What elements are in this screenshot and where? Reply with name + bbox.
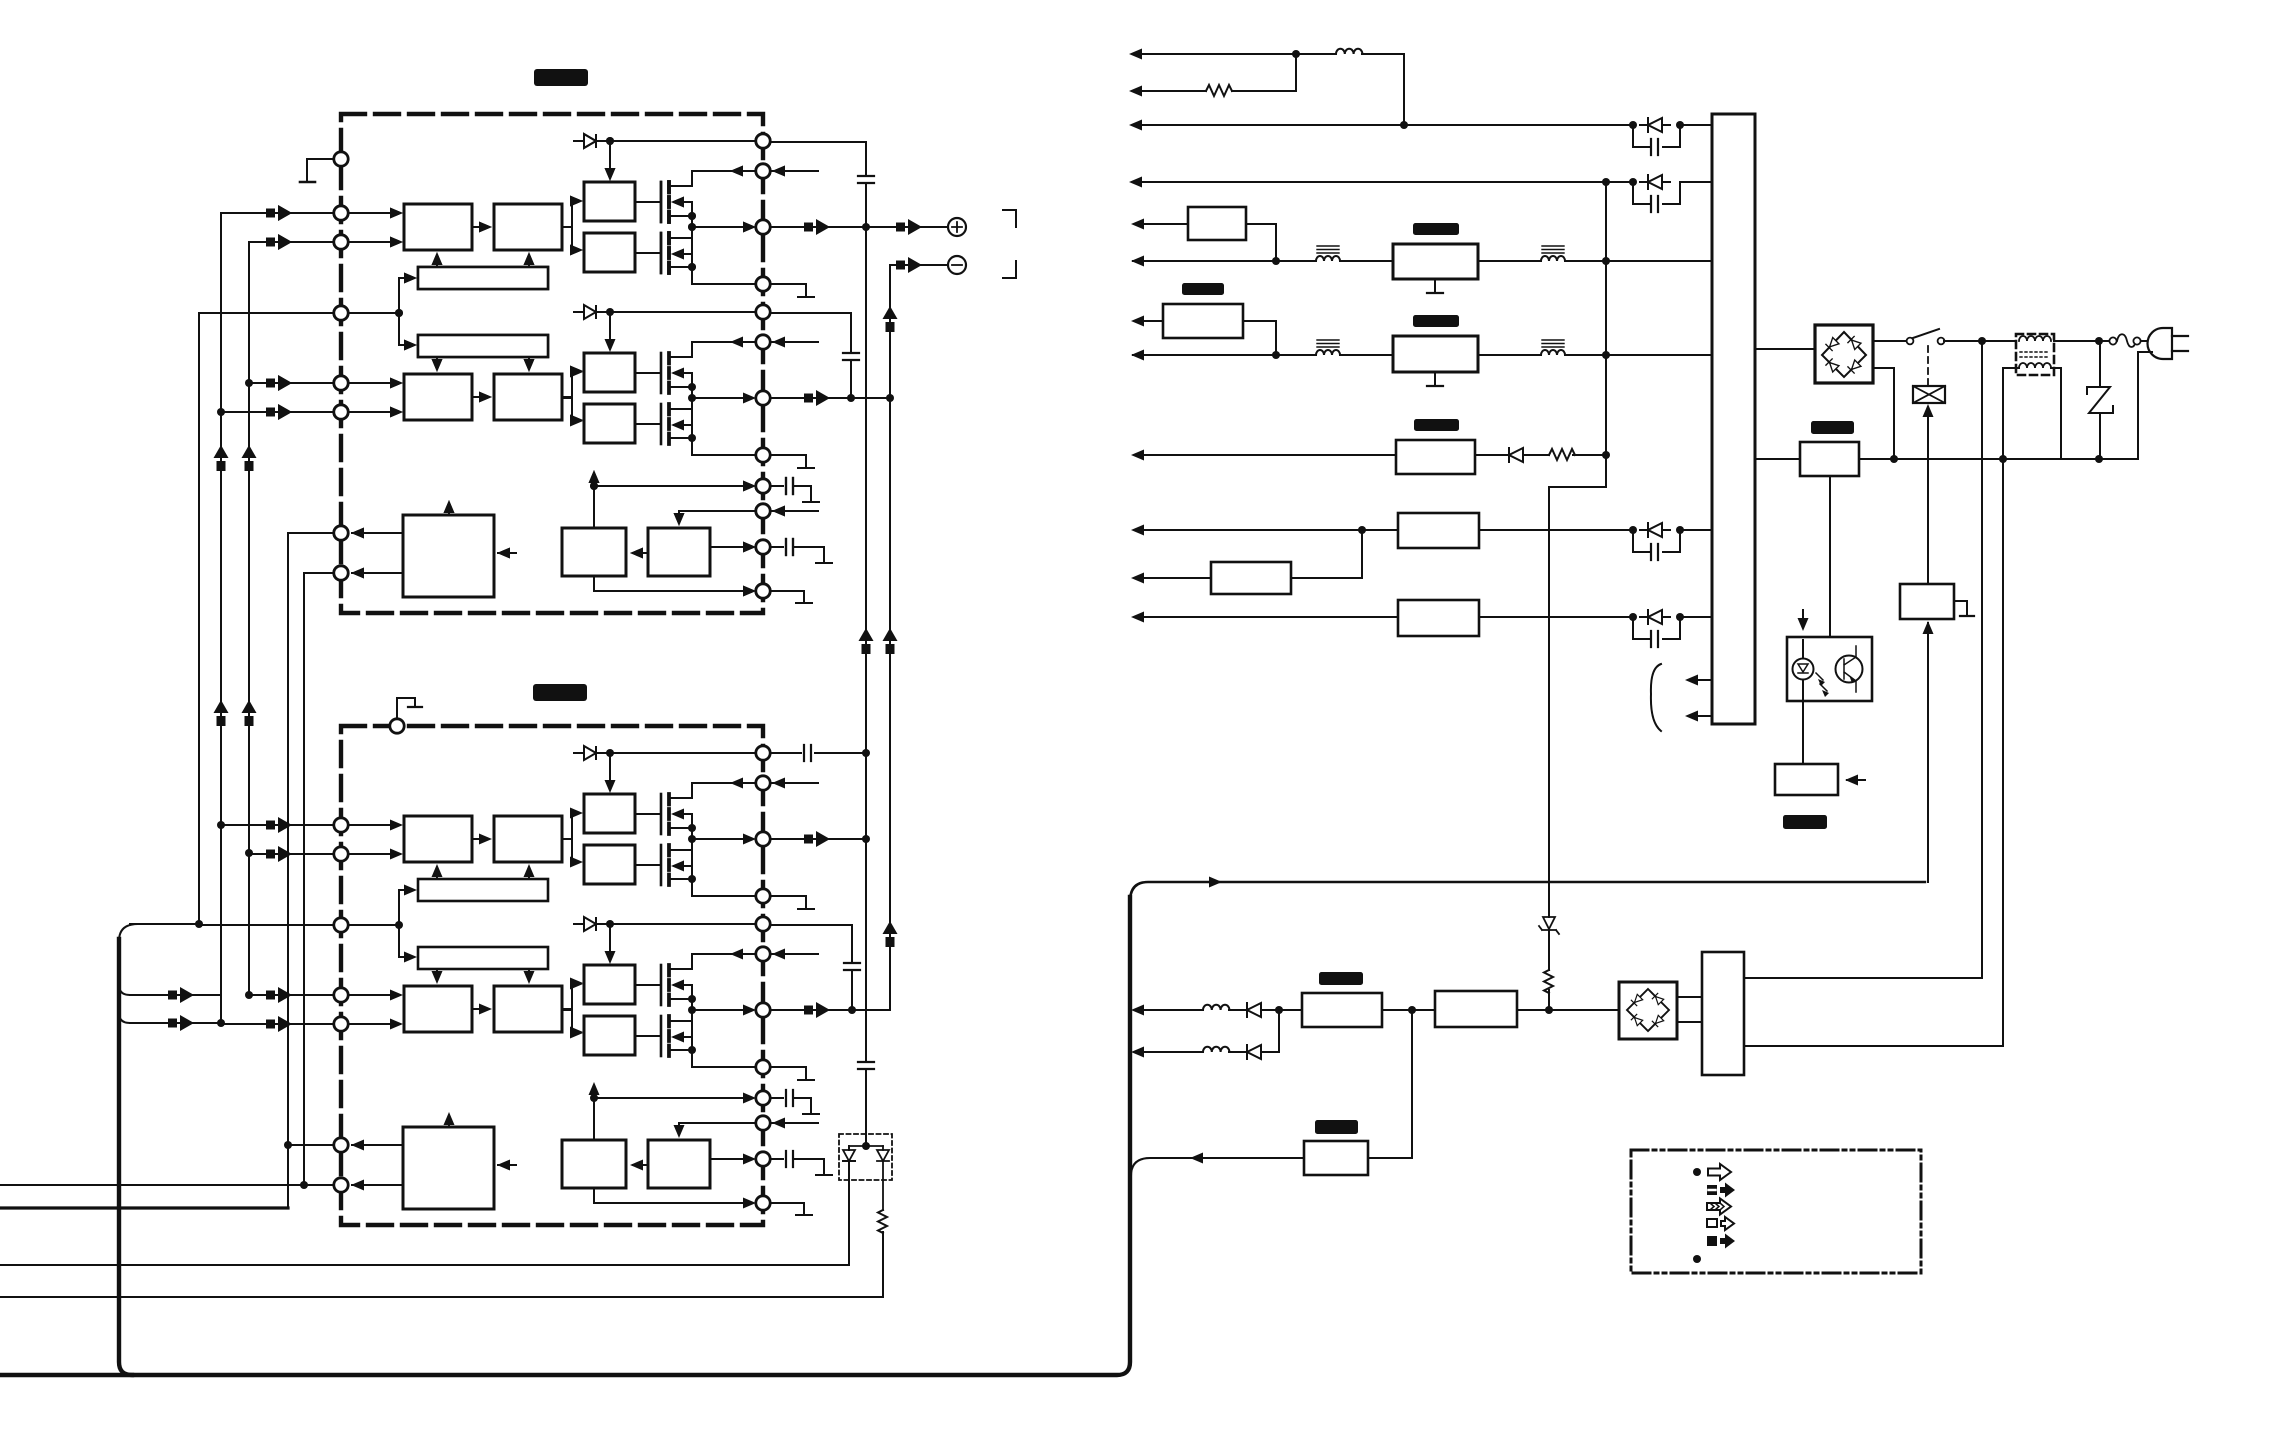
wire: power rail row 2 <box>1133 354 1712 356</box>
wire: power rail row 1 <box>1133 260 1712 262</box>
gate driver U2 high-side <box>584 182 635 221</box>
wire: AC line down to T2 <box>1744 341 1982 978</box>
transformer T2 <box>1702 952 1744 1075</box>
inductor L2 choke <box>1541 246 1565 261</box>
transformer T1 <box>1712 114 1755 724</box>
capacitor C7 <box>858 1062 874 1069</box>
bridge rectifier BR1 <box>1815 325 1873 383</box>
diode D15 <box>1501 448 1531 462</box>
relay RY1 coil <box>1913 386 1945 403</box>
label U24 <box>1783 815 1827 829</box>
junction dots on input buses <box>217 408 225 416</box>
op-amp U20 channel 2 (copy of channel 1) <box>199 726 832 1225</box>
diode D17 <box>1640 610 1670 624</box>
wire: clamp node <box>849 1145 883 1147</box>
wire: T1 to BR1 <box>1755 348 1815 350</box>
wire: mid reference feed + node <box>399 278 413 345</box>
optocoupler PC1 <box>1787 637 1872 701</box>
long feedback vertical x866 <box>770 142 866 1146</box>
power rail row 261 <box>1133 224 1712 261</box>
boost diode row <box>574 134 756 176</box>
wire: drive signal split to gate drivers <box>562 201 579 250</box>
wire + capacitor C4 drop ch2 <box>770 925 852 1010</box>
inductor L6 <box>1203 1005 1229 1010</box>
wire: speaker - return vertical x890 <box>852 265 948 1010</box>
bootstrap row to pin <box>669 171 818 186</box>
wire: feeder line 4 <box>0 1296 883 1298</box>
wires: BR2 to T2 <box>1677 997 1702 1022</box>
label: channel 2 IC name <box>533 684 587 701</box>
ground <box>803 501 819 503</box>
wire: soft-start row into bus <box>1131 1158 1304 1176</box>
capacitor C6 <box>786 539 793 555</box>
legend box <box>1631 1150 1921 1273</box>
block U6 level shift bar A <box>418 267 548 289</box>
block U22 line sense <box>1800 442 1859 476</box>
label U14 <box>1413 223 1459 235</box>
wires: standby PSU input rows <box>1136 1009 1302 1011</box>
wire: protect bus vertical A <box>287 533 289 1208</box>
block U26 filter <box>1435 991 1517 1027</box>
AC phono out rows top <box>1133 54 1712 182</box>
block U12 ref <box>648 528 710 576</box>
label U22 <box>1811 421 1854 434</box>
wire: feedback vertical bus x866 <box>770 142 866 1146</box>
wire: sense to optocoupler <box>1829 476 1831 637</box>
wire: drive split to lower drivers <box>562 371 579 420</box>
resistor R11 <box>1206 85 1232 96</box>
ground at source pin <box>770 284 806 296</box>
block U27 soft start <box>1304 1141 1368 1175</box>
block U9 pulse amp B <box>494 374 562 420</box>
ground U14 <box>1434 279 1436 292</box>
block U19 rectifier <box>1398 600 1479 636</box>
wire: protect bus vertical B <box>303 573 305 1186</box>
diode D11 clamp right <box>877 1150 889 1161</box>
wire: speaker + output row <box>770 226 948 228</box>
wire: input bus vertical A <box>220 213 222 1023</box>
wire: detect row <box>594 474 752 528</box>
protection/monitor section (reused) <box>288 470 832 603</box>
wire: output node to pin <box>692 226 752 228</box>
inductor L7 <box>1203 1047 1229 1052</box>
wires: PWM input rows <box>199 213 400 412</box>
speaker connector bracket <box>1003 210 1016 278</box>
wire: mid reference vertical <box>198 313 200 924</box>
gate driver U3 low-side <box>584 233 635 272</box>
legend row2: half-filled square + solid arrow <box>1707 1185 1717 1195</box>
diode D12 rectifier <box>1640 118 1670 132</box>
input rows <box>199 213 400 412</box>
brace <box>1651 664 1661 731</box>
label U17 <box>1414 419 1459 431</box>
wire: thick signal bus vertical left <box>119 939 132 1375</box>
inductor L4 choke <box>1541 340 1565 355</box>
resistor R13 <box>1549 449 1575 460</box>
output stage: MOSFET pair with gate drivers (reused) <box>562 134 818 297</box>
block U4 input amp A <box>404 204 472 250</box>
terminal: speaker - <box>948 256 966 274</box>
block U24 detect <box>1775 764 1838 795</box>
wire + capacitor C3 ch2 bootstrap <box>770 752 866 754</box>
resistor R10 <box>878 1210 887 1233</box>
inductor L1 choke <box>1316 246 1340 261</box>
block U16 regulator <box>1393 336 1478 372</box>
block U18 rectifier <box>1398 513 1479 548</box>
capacitor C1 <box>858 176 874 183</box>
wire: feeder line 2 <box>0 1206 288 1209</box>
capacitor C2 <box>843 353 859 360</box>
wire + capacitor C2 drop ch1 <box>770 313 851 398</box>
transistor Q2 MOSFET low-side <box>660 233 663 273</box>
bridge rectifier BR2 <box>1619 982 1677 1039</box>
diode D1 boost <box>574 135 756 147</box>
wire: ref input row <box>679 511 818 522</box>
wire: AC neutral run <box>1755 458 2138 460</box>
clamp diode module dotted box <box>839 1134 892 1180</box>
ground U16 <box>1434 372 1436 385</box>
wire: ch2 output A row <box>770 838 866 840</box>
power rail row 355 <box>1133 321 1712 355</box>
wire: osc out row <box>594 576 752 591</box>
label U15 <box>1182 283 1224 295</box>
wire: Q1/Q2 source-drain bus <box>692 202 756 284</box>
wires: T1 sense taps <box>1689 680 1712 716</box>
wire: ch2 output B row <box>770 1009 852 1011</box>
wire: thick signal bus bottom run <box>0 897 1130 1375</box>
row 455: standby supply <box>1136 454 1606 456</box>
wire: trigger line to relay driver <box>1130 882 1925 901</box>
terminal: speaker + <box>948 218 966 236</box>
block U8 input amp B <box>404 374 472 420</box>
block U21 filter <box>1211 562 1291 594</box>
ground pin channel 2 <box>390 719 404 733</box>
inductor L5 <box>1336 49 1362 54</box>
switch SW1 power <box>1907 338 1914 345</box>
pins on IC bus edge <box>756 134 770 148</box>
legend row3: chevron arrow <box>1707 1199 1731 1215</box>
diode D18 <box>1239 1003 1269 1017</box>
transistor Q1 MOSFET high-side <box>660 182 663 222</box>
pins on IC left edge <box>334 206 348 220</box>
wire: trigger to relay driver <box>1927 623 1929 882</box>
wire: standby rail vertical <box>1549 182 1606 1010</box>
diode D13 rectifier <box>1640 175 1670 189</box>
diode D14 zener <box>1543 917 1555 929</box>
pins <box>334 526 348 540</box>
line filter FL1 <box>2016 334 2054 375</box>
inductor L3 choke <box>1316 340 1340 355</box>
relay RY1 link (dashed) <box>1927 346 1929 385</box>
label U16 <box>1413 315 1459 327</box>
channel front-end (reused) <box>199 204 583 426</box>
mosfet lower <box>635 233 692 273</box>
wire: ch1 output B row <box>770 397 890 399</box>
wire: feeder line 1 <box>0 1184 334 1186</box>
capacitor C5 <box>786 478 793 494</box>
legend row4: open square + open arrow <box>1707 1219 1717 1227</box>
PC1 phototransistor <box>1836 656 1863 683</box>
wire: aux out row <box>1136 577 1211 579</box>
label U25 <box>1319 972 1363 985</box>
snubber capacitor C10 loop <box>1633 125 1680 147</box>
surge absorber Z1 <box>2099 341 2101 459</box>
block U5 pulse amp A <box>494 204 562 250</box>
block U25 standby reg <box>1302 993 1382 1027</box>
wire: input bus vertical B <box>248 242 250 995</box>
block U23 relay driver <box>1900 584 1954 619</box>
block U7 level shift bar B <box>418 335 548 357</box>
AC plug P1 <box>2148 328 2173 359</box>
label: channel 1 IC name <box>534 69 588 86</box>
ground <box>796 602 812 604</box>
ground pin channel 1 <box>334 152 348 166</box>
split from pulse amp to drivers <box>562 201 579 250</box>
wire: standby row <box>1136 454 1396 456</box>
capacitor C4 <box>844 963 860 970</box>
IC U1 dashed outline <box>341 114 763 613</box>
diode D19 <box>1239 1045 1269 1059</box>
amplifier channel IC (reused) <box>199 114 832 613</box>
label U27 <box>1315 1120 1358 1134</box>
diode D16 <box>1640 523 1670 537</box>
fuse F1 <box>2102 340 2110 342</box>
block U15 filter <box>1163 304 1243 338</box>
block U17 standby supply <box>1396 440 1475 474</box>
wire: bootstrap row to pin <box>669 171 818 186</box>
wire: feeder line 3 <box>0 1264 849 1266</box>
wires: channel 2 input rows from bus <box>130 924 221 1023</box>
snubber capacitor C11 loop <box>1633 182 1680 204</box>
resistor R12 <box>1544 970 1553 993</box>
wires: AC output rows top <box>1133 54 1404 125</box>
ch2 input rows from thick bus <box>119 924 221 1023</box>
ground <box>816 562 832 564</box>
rows 530 / 617 aux windings <box>1136 530 1712 647</box>
capacitor C3 <box>804 745 811 761</box>
block U13 filter <box>1188 207 1246 240</box>
legend arrow symbols <box>1708 1164 1731 1180</box>
legend row5: solid square + solid arrow <box>1707 1236 1717 1246</box>
row y547 <box>710 546 752 548</box>
block U11 osc <box>562 528 626 576</box>
block U10 protection logic <box>403 515 494 597</box>
diode D10 clamp left <box>843 1150 855 1161</box>
wire: AC neutral down to T2 <box>1744 459 2003 1046</box>
long bottom feeder lines <box>0 1185 883 1297</box>
mosfet upper <box>635 182 692 222</box>
block U14 regulator <box>1393 244 1478 279</box>
wires: aux winding rows <box>1136 529 1712 531</box>
PC1 LED <box>1793 659 1814 680</box>
signal direction arrows <box>214 445 229 471</box>
